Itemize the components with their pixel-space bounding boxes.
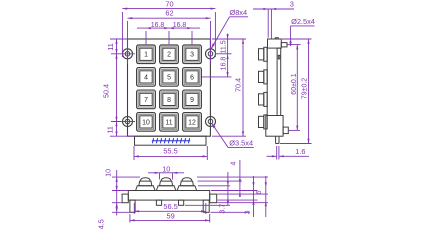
dimension 79±0.2 [308, 39, 310, 144]
svg-text:3: 3 [290, 0, 294, 9]
dimension 4 [239, 160, 241, 196]
svg-text:16.8: 16.8 [220, 57, 227, 71]
wire locating tab A [156, 200, 161, 205]
svg-text:11.5: 11.5 [220, 40, 227, 53]
svg-text:9: 9 [190, 97, 194, 104]
node mounting hole top-left (Ø8 pad / Ø3.5 hole) [123, 49, 133, 59]
node mounting hole bottom-left (Ø8 pad / Ø3.5 hole) [123, 117, 133, 127]
key button column 2 bottom profile [156, 178, 176, 191]
key button row 2 side profile [259, 70, 268, 84]
svg-text:10: 10 [104, 169, 113, 177]
dimension 50.4 (hole to hole vertical) [116, 54, 118, 122]
wire side view extension lines right [280, 39, 312, 144]
svg-text:3: 3 [245, 210, 252, 214]
key button 4 [137, 68, 156, 87]
svg-text:3.7: 3.7 [220, 204, 227, 214]
svg-text:10: 10 [142, 119, 150, 126]
node mounting hole top-right (Ø8 pad / Ø3.5 hole) [206, 49, 216, 59]
svg-text:4.5: 4.5 [96, 219, 105, 229]
svg-text:50.4: 50.4 [101, 84, 110, 98]
svg-text:3: 3 [190, 52, 194, 59]
dimension 4.5 (leg height, left) [116, 203, 118, 208]
wire right ear [210, 194, 217, 203]
key button 7 [137, 90, 156, 109]
wire front-view plate outline [128, 39, 211, 136]
key button 9 [183, 90, 202, 109]
dimension 55.5 (strip width) [134, 146, 207, 160]
wire bottom view right extension lines [185, 177, 268, 212]
svg-text:Ø8x4: Ø8x4 [229, 8, 247, 17]
wire locating tab B [179, 200, 184, 205]
wire extension lines for width dims [122, 12, 215, 64]
label Ø2.5x4 with leader [290, 26, 292, 46]
svg-text:70.4: 70.4 [234, 78, 243, 92]
label Ø3.5x4 with leader [212, 123, 229, 148]
wire right extension lines [202, 39, 246, 136]
dimension 6 [265, 176, 267, 217]
svg-text:Ø3.5x4: Ø3.5x4 [229, 138, 253, 147]
key button 3 [183, 45, 202, 64]
svg-text:55.5: 55.5 [163, 146, 177, 155]
dimension 11 (hole to bottom edge) [116, 122, 118, 137]
dimension 70 (overall width) [122, 8, 215, 10]
node pin row (blue hatch) [152, 138, 190, 143]
svg-text:7: 7 [144, 97, 148, 104]
svg-text:16.8: 16.8 [151, 22, 165, 29]
key button 2 [160, 45, 179, 64]
wire left ear [122, 194, 128, 203]
key button 10 [137, 113, 156, 132]
svg-text:11: 11 [165, 119, 172, 126]
svg-text:11: 11 [106, 126, 115, 133]
wire left leg [130, 200, 135, 212]
dimension 62 (hole spacing) [128, 17, 211, 19]
svg-text:16.8: 16.8 [173, 22, 187, 29]
dimension 10 (cap width) [148, 173, 184, 180]
svg-text:11: 11 [106, 43, 115, 50]
svg-text:79±0.2: 79±0.2 [302, 78, 309, 99]
dimension 10 (button height, left) [116, 170, 118, 216]
dimension 3 (top offset) [253, 9, 294, 39]
dimension 1.6 (pin thickness) [267, 146, 310, 160]
svg-text:1: 1 [144, 52, 148, 59]
dimension 16.8 (row pitch vertical) [227, 54, 229, 77]
key button 11 [160, 113, 179, 132]
svg-text:56.5: 56.5 [163, 202, 177, 211]
key button 5 [160, 68, 179, 87]
svg-text:1.6: 1.6 [295, 147, 305, 156]
wire right leg [203, 200, 209, 212]
wire left extension lines [110, 39, 135, 136]
dimension 60±0.1 [296, 45, 298, 131]
wire connector strip below plate [135, 136, 207, 145]
wire bottom view bar [128, 191, 209, 201]
svg-text:Ø2.5x4: Ø2.5x4 [291, 17, 315, 26]
node mounting hole bottom-right (Ø8 pad / Ø3.5 hole) [206, 117, 216, 127]
key button row 4 side profile [259, 115, 268, 129]
dimension 16.8 x2 (key pitch) [137, 27, 200, 29]
key button 6 [183, 68, 202, 87]
wire side view body outline [266, 38, 289, 144]
dimension 11 (top edge to hole) [116, 39, 118, 54]
svg-text:60±0.1: 60±0.1 [291, 73, 298, 94]
key button row 1 side profile [259, 47, 268, 61]
dimension 56.5 (inner span) [134, 203, 206, 214]
svg-text:4: 4 [231, 161, 238, 165]
svg-text:6: 6 [256, 190, 263, 194]
key button 1 [137, 45, 156, 64]
svg-text:59: 59 [166, 211, 174, 220]
key button column 3 bottom profile [177, 178, 197, 191]
svg-text:62: 62 [165, 8, 173, 17]
svg-text:70: 70 [165, 0, 173, 8]
dimension 3.7 [227, 172, 229, 205]
key button row 3 side profile [259, 92, 268, 106]
svg-text:12: 12 [188, 119, 196, 126]
svg-text:2: 2 [167, 52, 171, 59]
svg-text:6: 6 [190, 74, 194, 81]
key button 12 [183, 113, 202, 132]
key button 8 [160, 90, 179, 109]
svg-text:4: 4 [144, 74, 148, 81]
dimension 3 [253, 176, 255, 217]
svg-text:10: 10 [162, 164, 170, 173]
dimension 70.4 (overall height) [242, 39, 244, 136]
wire bottom view left extension lines [112, 177, 140, 212]
key button column 1 bottom profile [136, 178, 156, 191]
dimension 59 (outer span) [130, 214, 210, 223]
svg-text:5: 5 [167, 74, 171, 81]
dimension 11.5 (top to first row) [227, 34, 229, 55]
svg-text:8: 8 [167, 97, 171, 104]
label Ø8x4 with leader [211, 17, 229, 49]
